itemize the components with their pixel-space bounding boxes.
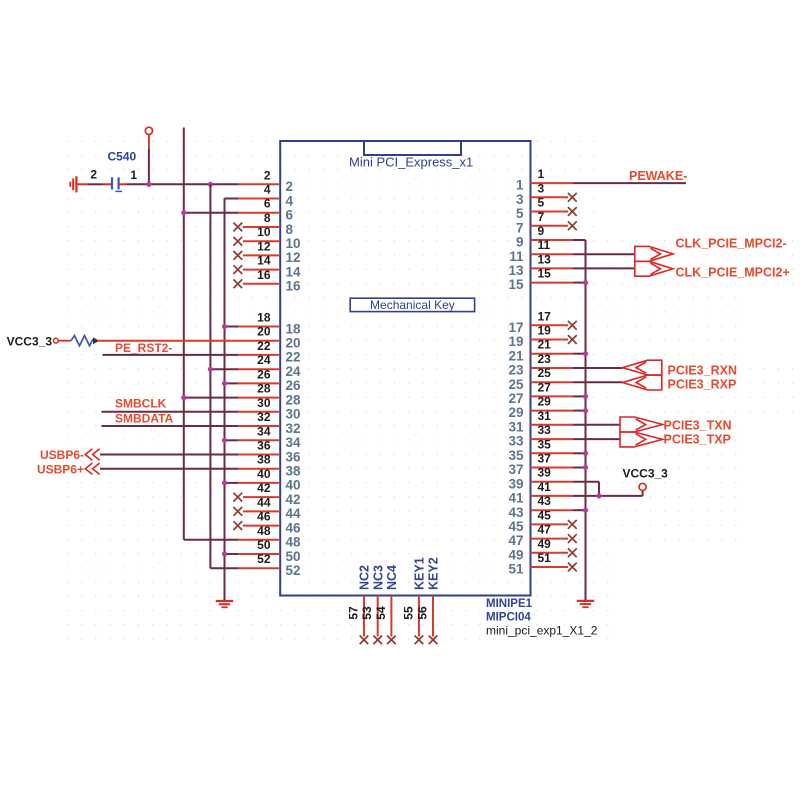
junction (pin 39 / pin 41 wire) [596, 493, 601, 498]
wire pin 24 to bus B [210, 368, 238, 370]
junction (pin 34 / bus C) [222, 438, 227, 443]
svg-text:33: 33 [508, 434, 524, 449]
pin 16 (left) stub, number and name [233, 268, 301, 294]
pin 27 (right) stub, number and name [508, 380, 573, 406]
pin 25 (right) stub, number and name [508, 366, 573, 392]
svg-text:USBP6+: USBP6+ [37, 463, 84, 477]
wire pin 40 to bus C [225, 482, 239, 484]
svg-text:C540: C540 [108, 150, 137, 164]
svg-text:9: 9 [516, 235, 524, 250]
svg-text:NC3: NC3 [371, 565, 385, 590]
svg-text:46: 46 [257, 510, 271, 524]
svg-text:15: 15 [508, 277, 524, 292]
svg-text:3: 3 [516, 192, 524, 207]
svg-text:21: 21 [508, 348, 524, 363]
wire pin 50 to bus C [225, 553, 239, 555]
svg-text:8: 8 [264, 211, 271, 225]
pin 54 (bottom, NC4) stub, no-connect X, number and name [374, 565, 399, 644]
svg-text:PCIE3_RXP: PCIE3_RXP [668, 378, 737, 392]
pin 3 (right) stub, number and name [516, 181, 577, 207]
svg-text:25: 25 [508, 377, 524, 392]
wire pin 23 to RX port [573, 367, 623, 369]
svg-text:20: 20 [257, 325, 271, 339]
pin 23 (right) stub, number and name [508, 352, 573, 378]
pin 40 (left) stub, number and name [238, 467, 301, 493]
svg-text:14: 14 [257, 254, 271, 268]
capacitor C540 [90, 150, 137, 192]
pin 41 (right) stub, number and name [508, 480, 573, 506]
pin 38 (left) stub, number and name [238, 453, 301, 479]
pin 9 (right) stub, number and name [516, 224, 573, 250]
svg-text:44: 44 [286, 506, 302, 521]
off-page port PCIE3_RX pair (double pennant) [623, 360, 662, 390]
svg-text:20: 20 [286, 336, 301, 351]
svg-text:41: 41 [508, 491, 524, 506]
pin 55 (bottom, KEY1) stub, no-connect X, number and name [401, 557, 426, 644]
svg-text:45: 45 [538, 508, 552, 522]
off-page port USBP6+ [37, 463, 100, 477]
svg-text:23: 23 [508, 363, 524, 378]
svg-text:32: 32 [257, 410, 271, 424]
svg-text:CLK_PCIE_MPCI2+: CLK_PCIE_MPCI2+ [676, 266, 790, 280]
svg-text:22: 22 [286, 350, 301, 365]
svg-text:36: 36 [286, 449, 302, 464]
svg-text:31: 31 [508, 419, 524, 434]
resistor terminal arrow [93, 337, 99, 344]
pin 56 (bottom, KEY2) stub, no-connect X, number and name [415, 557, 440, 644]
svg-text:6: 6 [286, 208, 294, 223]
svg-text:38: 38 [286, 464, 302, 479]
power symbol (top) [145, 127, 152, 184]
svg-text:28: 28 [286, 392, 302, 407]
svg-text:51: 51 [538, 551, 552, 565]
wire pin 33 to TX port [573, 438, 620, 440]
svg-text:23: 23 [538, 352, 552, 366]
pin 6 (left) stub, number and name [238, 197, 294, 223]
svg-text:47: 47 [538, 523, 552, 537]
svg-text:1: 1 [130, 168, 137, 182]
junction (power stem / pin2 wire) [146, 182, 151, 187]
svg-text:37: 37 [508, 462, 523, 477]
pin 29 (right) stub, number and name [508, 395, 573, 421]
svg-text:50: 50 [257, 538, 271, 552]
pin 39 (right) stub, number and name [508, 466, 573, 492]
wire pin 43 to bus D [573, 509, 586, 511]
wire pin 37 to bus D [573, 467, 586, 469]
svg-text:31: 31 [538, 409, 552, 423]
svg-text:16: 16 [286, 279, 302, 294]
pin 52 (left) stub, number and name [238, 552, 301, 578]
grid dots [67, 141, 793, 639]
svg-text:21: 21 [538, 338, 552, 352]
svg-text:56: 56 [415, 606, 429, 620]
pin 33 (right) stub, number and name [508, 423, 573, 449]
svg-text:16: 16 [257, 268, 271, 282]
wire USBP6- to pin 36 [100, 454, 238, 456]
svg-text:2: 2 [264, 168, 271, 182]
wire SMBCLK to pin 30 [102, 411, 239, 413]
svg-text:51: 51 [508, 562, 524, 577]
svg-text:1: 1 [516, 178, 524, 193]
wire pin 25 to RX port [573, 381, 623, 383]
junction (pin 6 / bus A) [181, 210, 186, 215]
svg-text:18: 18 [257, 311, 271, 325]
svg-text:52: 52 [286, 563, 301, 578]
wire pin 18 to bus C [225, 326, 239, 328]
wire pin 6 to bus A [184, 212, 238, 214]
svg-text:33: 33 [538, 423, 552, 437]
svg-text:57: 57 [346, 606, 360, 620]
pin 20 (left) stub, number and name [238, 325, 301, 351]
off-page port USBP6- [40, 448, 100, 462]
svg-text:VCC3_3: VCC3_3 [7, 334, 53, 348]
svg-text:48: 48 [257, 524, 271, 538]
svg-text:mini_pci_exp1_X1_2: mini_pci_exp1_X1_2 [486, 623, 598, 637]
bus B vertical wire [210, 184, 238, 568]
pin 18 (left) stub, number and name [238, 311, 301, 337]
svg-text:PCIE3_RXN: PCIE3_RXN [668, 364, 737, 378]
junction (pin 27 / bus D) [583, 394, 588, 399]
pin 46 (left) stub, number and name [233, 510, 301, 536]
ground (capacitor C540 pin 2) [70, 176, 76, 192]
pin 32 (left) stub, number and name [238, 410, 301, 436]
junction (pin 35 / bus D) [583, 451, 588, 456]
pin 48 (left) stub, number and name [238, 524, 301, 550]
mechanical key block [350, 298, 474, 312]
wire pin 28 to bus A [184, 397, 238, 399]
svg-text:Mechanical Key: Mechanical Key [370, 298, 455, 312]
svg-text:29: 29 [508, 405, 523, 420]
svg-text:27: 27 [538, 380, 552, 394]
junction (pin 26 / bus C) [222, 381, 227, 386]
pin 37 (right) stub, number and name [508, 452, 573, 478]
pin 5 (right) stub, number and name [516, 196, 577, 222]
wire pin 9 to bus D [573, 239, 586, 241]
power port VCC3_3 (left) [7, 334, 59, 348]
junction (pin 28 / bus A) [181, 395, 186, 400]
svg-text:PCIE3_TXN: PCIE3_TXN [664, 419, 732, 433]
svg-text:27: 27 [508, 391, 523, 406]
svg-text:1: 1 [538, 167, 545, 181]
svg-text:24: 24 [257, 353, 271, 367]
svg-text:15: 15 [538, 267, 552, 281]
pin 12 (left) stub, number and name [233, 239, 300, 265]
svg-text:35: 35 [538, 437, 552, 451]
pin 4 (left) stub, number and name [238, 183, 294, 209]
svg-text:52: 52 [257, 552, 271, 566]
wire pin 34 to bus C [225, 439, 239, 441]
svg-text:42: 42 [257, 481, 271, 495]
pin 35 (right) stub, number and name [508, 437, 573, 463]
svg-text:8: 8 [286, 222, 294, 237]
junction (pin 18 / bus C) [222, 324, 227, 329]
junction (pin 43 / bus D) [583, 508, 588, 513]
svg-text:KEY2: KEY2 [427, 557, 441, 590]
pin 30 (left) stub, number and name [238, 396, 301, 422]
resistor (blue zigzag) [71, 336, 93, 346]
svg-text:12: 12 [286, 250, 301, 265]
wire pin 35 to bus D [573, 452, 586, 454]
svg-text:USBP6-: USBP6- [40, 448, 84, 462]
svg-text:55: 55 [401, 606, 415, 620]
pin 31 (right) stub, number and name [508, 409, 573, 435]
pin 28 (left) stub, number and name [238, 382, 301, 408]
pin 1 (right) stub, number and name [516, 167, 573, 193]
svg-text:6: 6 [264, 197, 271, 211]
svg-text:53: 53 [360, 606, 374, 620]
svg-text:40: 40 [286, 478, 301, 493]
pin 2 (left) stub, number and name [238, 168, 293, 194]
svg-text:17: 17 [508, 320, 523, 335]
svg-text:48: 48 [286, 535, 302, 550]
svg-text:43: 43 [538, 494, 552, 508]
pin 49 (right) stub, number and name [508, 537, 576, 563]
pin 8 (left) stub, number and name [233, 211, 293, 237]
svg-text:19: 19 [508, 334, 523, 349]
svg-text:4: 4 [264, 183, 271, 197]
svg-text:NC2: NC2 [358, 565, 372, 590]
svg-text:28: 28 [257, 382, 271, 396]
svg-text:25: 25 [538, 366, 552, 380]
svg-text:44: 44 [257, 495, 271, 509]
junction (pin 24 / bus B) [208, 367, 213, 372]
pin 47 (right) stub, number and name [508, 523, 576, 549]
power port VCC3_3 (right) [623, 467, 669, 491]
bus C vertical wire [224, 199, 226, 602]
svg-text:VCC3_3: VCC3_3 [623, 467, 669, 481]
svg-text:5: 5 [538, 196, 545, 210]
svg-text:45: 45 [508, 519, 524, 534]
pin 50 (left) stub, number and name [238, 538, 301, 564]
svg-text:SMBDATA: SMBDATA [115, 411, 174, 425]
svg-text:7: 7 [516, 220, 524, 235]
junction (pin 21 / bus D) [583, 351, 588, 356]
svg-text:24: 24 [286, 364, 302, 379]
svg-text:10: 10 [286, 236, 301, 251]
pin 24 (left) stub, number and name [238, 353, 301, 379]
wire pin 31 to TX port [573, 424, 620, 426]
svg-text:PEWAKE-: PEWAKE- [629, 169, 687, 183]
pin 45 (right) stub, number and name [508, 508, 576, 534]
wire resistor to pin 20 [97, 340, 238, 342]
svg-text:30: 30 [257, 396, 271, 410]
svg-text:PE_RST2-: PE_RST2- [115, 341, 172, 355]
wire pin 26 to bus C [225, 382, 239, 384]
wire pin 13 to CLK port [573, 267, 635, 269]
svg-text:29: 29 [538, 395, 552, 409]
wire ground to C540 [77, 183, 111, 185]
svg-text:34: 34 [257, 424, 271, 438]
ground (bus C, bottom left) [216, 601, 233, 607]
svg-text:37: 37 [538, 452, 552, 466]
junction (bus B top / pin2 wire) [208, 182, 213, 187]
pin 19 (right) stub, number and name [508, 324, 576, 350]
svg-text:14: 14 [286, 264, 302, 279]
wire pin 1 PEWAKE- [573, 182, 686, 184]
svg-text:50: 50 [286, 549, 301, 564]
bus D vertical wire (right ground bus) [585, 240, 587, 600]
wire pin 41 to VCC3_3 [573, 491, 643, 496]
svg-text:13: 13 [538, 252, 552, 266]
pin 15 (right) stub, number and name [508, 267, 573, 293]
svg-text:2: 2 [90, 168, 97, 182]
pin 42 (left) stub, number and name [233, 481, 300, 507]
pin 11 (right) stub, number and name [509, 238, 573, 264]
svg-text:38: 38 [257, 453, 271, 467]
svg-text:17: 17 [538, 309, 552, 323]
svg-text:43: 43 [508, 505, 524, 520]
wire VCC3_3 to resistor [58, 340, 71, 342]
pin 26 (left) stub, number and name [238, 367, 301, 393]
svg-text:26: 26 [286, 378, 302, 393]
wire pin 11 to CLK port [573, 253, 635, 255]
svg-text:49: 49 [508, 547, 523, 562]
svg-text:46: 46 [286, 520, 302, 535]
pin 44 (left) stub, number and name [233, 495, 301, 521]
pin 13 (right) stub, number and name [508, 252, 573, 278]
wire USBP6+ to pin 38 [100, 468, 238, 470]
wire pin 21 to bus D [573, 353, 586, 355]
pin 53 (bottom, NC3) stub, no-connect X, number and name [360, 565, 385, 644]
svg-text:5: 5 [516, 206, 524, 221]
svg-text:39: 39 [508, 476, 523, 491]
svg-text:CLK_PCIE_MPCI2-: CLK_PCIE_MPCI2- [676, 237, 787, 251]
svg-text:Mini PCI_Express_x1: Mini PCI_Express_x1 [349, 155, 473, 170]
svg-text:40: 40 [257, 467, 271, 481]
svg-text:39: 39 [538, 466, 552, 480]
off-page port PCIE3_TX pair (double pennant) [620, 417, 663, 447]
junction (pin 40 / bus C) [222, 480, 227, 485]
svg-text:34: 34 [286, 435, 302, 450]
svg-text:NC4: NC4 [385, 565, 399, 590]
svg-text:13: 13 [508, 263, 524, 278]
wire SMBDATA to pin 32 [102, 425, 239, 427]
wire pin 27 to bus D [573, 395, 586, 397]
pin 57 (bottom, NC2) stub, no-connect X, number and name [346, 565, 371, 644]
wire pin 39 (bend down to pin 41 net) [573, 482, 599, 496]
svg-text:SMBCLK: SMBCLK [115, 397, 167, 411]
svg-text:54: 54 [374, 606, 388, 620]
svg-text:26: 26 [257, 367, 271, 381]
svg-text:30: 30 [286, 407, 301, 422]
junction (pin 37 / bus D) [583, 465, 588, 470]
svg-text:7: 7 [538, 210, 545, 224]
junction (pin 29 / bus D) [583, 408, 588, 413]
svg-text:4: 4 [286, 193, 294, 208]
junction (pin 15 / bus D) [583, 280, 588, 285]
junction (pin 50 / bus C) [222, 551, 227, 556]
wire C540 pin1 to pin 2 of connector [119, 183, 238, 185]
off-page port CLK_PCIE_MPCI2 pair (double pennant) [635, 246, 673, 276]
pin 22 (left) stub, number and name [238, 339, 301, 365]
svg-text:MIPCI04: MIPCI04 [486, 611, 531, 623]
svg-text:MINIPE1: MINIPE1 [486, 598, 533, 610]
wire PE_RST2- to pin 22 [103, 354, 239, 356]
svg-text:11: 11 [509, 249, 524, 264]
wire pin 29 to bus D [573, 410, 586, 412]
svg-text:KEY1: KEY1 [413, 557, 427, 590]
wire pin 15 to bus D [573, 282, 586, 284]
pin 14 (left) stub, number and name [233, 254, 301, 280]
pin 34 (left) stub, number and name [238, 424, 301, 450]
pin 36 (left) stub, number and name [238, 439, 301, 465]
svg-text:9: 9 [538, 224, 545, 238]
svg-text:47: 47 [508, 533, 523, 548]
ground (bus D, bottom right) [577, 601, 594, 607]
svg-text:2: 2 [286, 179, 294, 194]
svg-text:12: 12 [257, 239, 271, 253]
svg-text:36: 36 [257, 439, 271, 453]
connector U: Mini PCI Express x1 body [280, 141, 530, 596]
svg-text:PCIE3_TXP: PCIE3_TXP [664, 433, 731, 447]
svg-text:10: 10 [257, 225, 271, 239]
pin 21 (right) stub, number and name [508, 338, 573, 364]
svg-text:19: 19 [538, 324, 552, 338]
svg-text:35: 35 [508, 448, 524, 463]
svg-text:3: 3 [538, 181, 545, 195]
wire pin 4 to bus C [225, 198, 239, 200]
svg-text:11: 11 [538, 238, 551, 252]
pin 43 (right) stub, number and name [508, 494, 573, 520]
svg-text:49: 49 [538, 537, 552, 551]
svg-text:41: 41 [538, 480, 552, 494]
svg-text:42: 42 [286, 492, 301, 507]
pin 17 (right) stub, number and name [508, 309, 576, 335]
svg-text:32: 32 [286, 421, 301, 436]
svg-text:18: 18 [286, 321, 302, 336]
svg-text:22: 22 [257, 339, 271, 353]
pin 51 (right) stub, number and name [508, 551, 576, 577]
bus A vertical wire [184, 128, 238, 540]
pin 10 (left) stub, number and name [233, 225, 300, 251]
pin 7 (right) stub, number and name [516, 210, 577, 236]
